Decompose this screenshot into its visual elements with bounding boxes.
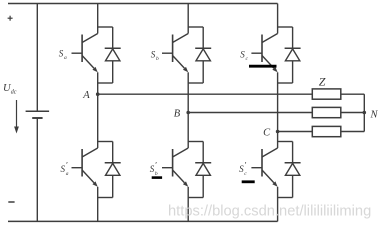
svg-text:A: A [82, 90, 90, 101]
label Sc [240, 50, 248, 62]
svg-text:S: S [59, 49, 64, 59]
wire: leg b lower (emitter to bottom bus) [187, 187, 189, 222]
svg-text:Z: Z [319, 75, 326, 89]
wire: leg c lower (emitter to bottom bus) [277, 187, 279, 222]
label Z [319, 75, 326, 89]
svg-text:′: ′ [155, 160, 157, 170]
diode Da (upper freewheel diode) [98, 27, 121, 83]
diode Dc' (lower freewheel diode) [278, 142, 301, 198]
label Sb [151, 50, 159, 62]
diode Db (upper freewheel diode) [188, 27, 211, 83]
transistor Sb' (lower IGBT) [162, 148, 188, 187]
node C [263, 127, 279, 138]
wire: leg b mid (emitter to node B) [187, 72, 189, 112]
label: - terminal of Udc [8, 201, 14, 203]
label Sc' [239, 160, 247, 177]
wire: load B to N [341, 112, 365, 114]
wire: load A to N [341, 94, 365, 112]
wire: bottom DC bus [8, 220, 278, 222]
wire: phase A output (node A to load) [98, 93, 313, 95]
transistor Sc' (lower IGBT) [251, 148, 277, 187]
node N [363, 110, 379, 121]
label: + terminal of Udc [8, 16, 13, 21]
hand-drawn mark under Sb' [152, 176, 162, 179]
svg-text:B: B [174, 108, 181, 119]
node A [82, 90, 99, 101]
wire: leg a upper (from top bus) [97, 4, 99, 34]
wire: phase B output (node B to load) [188, 112, 312, 114]
hand-drawn mark under Sc' [242, 180, 255, 183]
wire: top DC bus [8, 3, 278, 5]
wire: leg a (node A to lower IGBT) [97, 94, 99, 148]
battery Udc (DC source) [26, 4, 49, 222]
wire: load C to N [341, 113, 365, 132]
svg-text:dc: dc [11, 90, 17, 96]
impedance Z (phase A load) [312, 89, 341, 99]
diode Db' (lower freewheel diode) [188, 142, 211, 198]
diode Dc (upper freewheel diode) [278, 27, 301, 83]
current direction arrow (Udc) [14, 100, 19, 134]
svg-text:a: a [66, 171, 69, 177]
svg-text:N: N [370, 110, 379, 121]
svg-text:C: C [263, 127, 271, 138]
hand-drawn mark near Sc (upper) [249, 65, 277, 68]
wire: leg c upper (from top bus) [277, 4, 279, 34]
wire: leg c mid (emitter to node C) [277, 72, 279, 131]
wire: leg c (node C to lower IGBT) [277, 132, 279, 149]
svg-text:′: ′ [66, 160, 68, 170]
transistor Sa' (lower IGBT) [72, 148, 98, 187]
diode Da' (lower freewheel diode) [98, 142, 121, 198]
wire: leg b (node B to lower IGBT) [187, 113, 189, 149]
label Sb' [150, 160, 158, 177]
wire: leg a lower (emitter to bottom bus) [97, 187, 99, 222]
svg-text:′: ′ [245, 160, 247, 170]
impedance Z (phase C load) [312, 126, 341, 136]
transistor Sc (upper IGBT) [251, 34, 277, 73]
svg-text:b: b [156, 56, 159, 62]
wire: leg b upper (from top bus) [187, 4, 189, 34]
svg-text:S: S [240, 50, 245, 60]
impedance Z (phase B load) [312, 107, 341, 117]
label Udc [3, 83, 17, 96]
svg-text:https://blog.csdn.net/lililili: https://blog.csdn.net/lilililiiliming [168, 204, 371, 220]
transistor Sa (upper IGBT) [72, 34, 98, 73]
label Sa' [61, 160, 69, 177]
node B [174, 108, 190, 119]
label Sa [59, 49, 67, 61]
svg-text:a: a [64, 55, 67, 61]
watermark text [168, 204, 371, 220]
wire: phase C output (node C to load) [278, 131, 313, 133]
svg-text:b: b [155, 171, 158, 177]
transistor Sb (upper IGBT) [162, 34, 188, 73]
wire: leg a mid (emitter to node A) [97, 72, 99, 94]
svg-text:S: S [151, 50, 156, 60]
